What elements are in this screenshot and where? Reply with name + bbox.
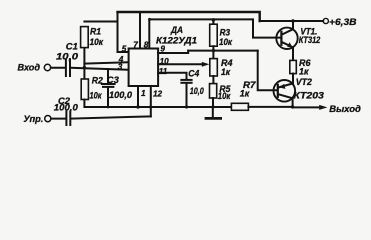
wire: node A down to VT2 base	[258, 51, 278, 91]
label R5 value 10к	[218, 91, 232, 101]
terminal Упр	[45, 116, 51, 122]
label R1 value 10к	[90, 37, 105, 47]
svg-text:1к: 1к	[299, 66, 310, 76]
VT1 collector	[282, 21, 293, 35]
wire: pin 1 vertical	[137, 86, 139, 107]
junction dot pin1/ground rail	[136, 105, 139, 108]
label R4	[221, 58, 233, 68]
VT1 emitter with arrow	[282, 42, 293, 60]
label VT2	[296, 77, 313, 87]
wire: Упр terminal to C2	[51, 118, 65, 120]
wire: input terminal to C1	[51, 67, 65, 69]
wire: vertical +V column x117.5 (rail1 down to pin 5)	[117, 12, 119, 52]
svg-text:100,0: 100,0	[54, 102, 79, 112]
VT2 emitter (arrow toward base, PNP)	[278, 84, 292, 88]
resistor R1	[81, 27, 89, 48]
capacitor C4 plates	[181, 80, 191, 83]
pin number 10	[160, 57, 170, 66]
resistor R4 (variable)	[210, 59, 218, 76]
svg-text:ДА: ДА	[170, 25, 183, 35]
wire: R5 bottom lead	[212, 98, 214, 107]
junction dot R3 top on rail2	[212, 18, 216, 22]
wire: C2 to pin 12 column	[71, 116, 151, 118]
VT2 collector	[278, 94, 292, 107]
label C1	[66, 41, 78, 51]
VT1 base bar	[280, 32, 282, 45]
label C4	[188, 68, 199, 78]
svg-text:100,0: 100,0	[109, 90, 133, 100]
wire: +V rail1 from R1/pin5 column to top-right corner, down to +6,3V line	[118, 12, 260, 21]
wire: rail2 (pin 8 up, across to x253, down to VT1 base)	[149, 19, 281, 48]
wire: R3 bottom lead	[212, 46, 214, 50]
svg-text:10к: 10к	[218, 91, 232, 101]
svg-text:С4: С4	[188, 68, 199, 78]
wire: R6 bottom to VT2 emitter	[292, 74, 294, 84]
svg-text:12: 12	[153, 90, 163, 99]
wire: pin 9 to R3/R4 node	[158, 51, 188, 53]
svg-text:5: 5	[122, 44, 127, 53]
svg-text:С1: С1	[66, 41, 78, 51]
wire: R7 to VT2 collector node	[248, 106, 292, 108]
label C2 value 100,0	[54, 102, 79, 112]
wire: C3 bottom lead	[107, 87, 109, 107]
svg-text:8: 8	[144, 41, 149, 50]
svg-text:10,0: 10,0	[56, 51, 79, 61]
label Упр.	[23, 113, 43, 124]
junction dot R5/ground rail	[211, 105, 214, 108]
label Выход	[329, 103, 361, 114]
pin number 1	[141, 89, 146, 98]
capacitor C1 plates	[66, 60, 70, 76]
wire: +6,3V supply line to terminal	[260, 20, 324, 22]
terminal +6,3V	[323, 18, 328, 23]
svg-text:3: 3	[118, 63, 123, 72]
label DA	[170, 25, 183, 35]
svg-text:С3: С3	[107, 75, 119, 85]
wire: R4 top lead	[212, 51, 214, 59]
wire: node A across to VT2 base column	[188, 50, 258, 52]
svg-text:1к: 1к	[221, 67, 231, 77]
pin number 4	[118, 55, 124, 64]
svg-text:10к: 10к	[219, 37, 233, 47]
pin number 9	[160, 44, 165, 53]
svg-text:КТ203: КТ203	[293, 91, 324, 101]
label C2	[58, 96, 71, 106]
label C3 value 100,0	[109, 90, 133, 100]
junction dot VT1 collector on +6,3V line	[291, 19, 294, 22]
resistor R5	[210, 84, 217, 98]
label КТ203	[293, 91, 324, 101]
wire: C3 top lead from pin3 wire	[107, 69, 109, 84]
wire: C4 bottom lead	[186, 83, 188, 107]
junction dot VT2 collector/output	[291, 105, 294, 108]
pin number 12	[153, 90, 163, 99]
resistor R6	[290, 60, 297, 73]
junction dot C3/ground rail	[107, 106, 110, 109]
VT2 base bar	[277, 85, 279, 97]
svg-text:7: 7	[133, 40, 138, 49]
label R3	[220, 27, 231, 37]
capacitor C3 plates	[102, 84, 115, 87]
wire: R3 top lead to rail2	[212, 19, 214, 24]
svg-text:1к: 1к	[240, 88, 251, 98]
svg-text:Выход: Выход	[329, 103, 361, 114]
svg-text:R3: R3	[220, 27, 231, 37]
pin number 8	[144, 41, 149, 50]
label C4 value 10,0	[190, 86, 205, 96]
R4 wiper arrow head	[202, 62, 210, 67]
junction dot C4/ground rail	[185, 105, 188, 108]
wire: R4 bottom to R5 top	[212, 76, 214, 84]
wire: ground rail (R2 bottom across to R7)	[84, 100, 231, 108]
pin number 7	[133, 40, 138, 49]
label C1 value 10,0	[56, 51, 79, 61]
pin number 5	[122, 44, 127, 53]
svg-text:11: 11	[159, 67, 168, 76]
capacitor C2 plates	[66, 112, 70, 126]
junction dot input node	[83, 66, 86, 69]
label R7	[243, 80, 256, 90]
op-amp DA K122UD1 body	[129, 49, 159, 87]
label R5	[219, 84, 231, 94]
label R3 value 10к	[219, 37, 233, 47]
svg-text:10,0: 10,0	[190, 86, 205, 96]
label VT1.	[300, 27, 317, 37]
svg-text:R1: R1	[90, 27, 101, 37]
svg-text:+6,3В: +6,3В	[329, 16, 357, 27]
wire: pin 7 to rail1	[139, 12, 141, 49]
label R6	[299, 58, 311, 68]
label R6 value 1к	[299, 66, 310, 76]
label R4 value 1к	[221, 67, 231, 77]
wire: C1 to IC pin 3	[71, 68, 129, 70]
wire: pin 10 to R4 wiper	[158, 63, 202, 65]
junction dot pin12 column crossing rail	[149, 105, 152, 108]
output arrow head	[319, 105, 327, 110]
label К122УД1	[156, 35, 197, 45]
wire: pin 12 vertical	[150, 86, 152, 116]
resistor R2	[81, 79, 88, 100]
terminal Вход	[44, 64, 50, 70]
ground symbol	[212, 107, 214, 118]
wire: output with arrow	[293, 106, 321, 108]
wire: R1 top to +V column	[84, 21, 117, 23]
wire: pin 11 to C4	[158, 73, 186, 80]
junction dot R3 bottom node	[212, 49, 215, 52]
label R2	[92, 76, 104, 86]
label Вход	[18, 62, 41, 73]
transistor VT2 circle	[274, 80, 296, 102]
resistor R7	[231, 103, 248, 110]
resistor R3	[210, 24, 218, 46]
label КТ312	[299, 35, 321, 45]
pin number 3	[118, 63, 123, 72]
wire: node to IC pin 4	[84, 62, 128, 63]
svg-text:Упр.: Упр.	[23, 113, 43, 124]
svg-text:1: 1	[141, 89, 146, 98]
transistor VT1 circle	[276, 28, 297, 49]
label R7 value 1к	[240, 88, 251, 98]
pin number 11	[159, 67, 168, 76]
label C3	[107, 75, 119, 85]
label R1	[90, 27, 101, 37]
wire: R1 bottom / node / R2 top vertical	[83, 48, 85, 80]
svg-text:КТ312: КТ312	[299, 35, 321, 45]
junction dot pin8/rail2	[148, 18, 151, 21]
wire: pin 5 stub	[118, 51, 129, 53]
svg-text:10к: 10к	[90, 90, 103, 100]
svg-text:VT2: VT2	[296, 77, 313, 87]
label +6,3В	[329, 16, 357, 27]
svg-text:Вход: Вход	[18, 62, 41, 73]
label R2 value 10к	[90, 90, 103, 100]
svg-text:10к: 10к	[90, 37, 105, 47]
